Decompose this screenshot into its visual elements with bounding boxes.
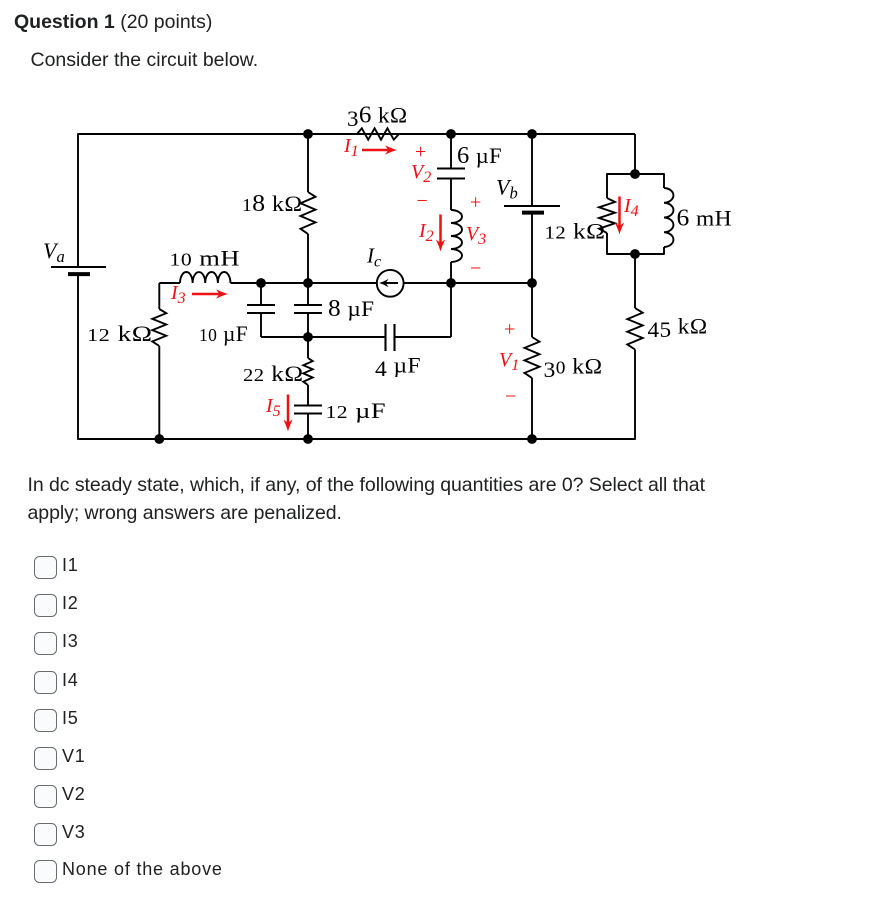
wire coil lower lead [450,262,452,283]
svg-text:I1: I1 [343,135,359,160]
resistor 12 kOhm left [152,309,166,346]
capacitor 12 uF [294,406,322,414]
source Vb [504,206,560,213]
label plus V3 [470,192,481,214]
wire top rail [78,133,635,135]
wire 12k-right upper lead [606,173,608,198]
wire lower rail left [261,336,386,338]
junction dots [154,129,639,444]
label V3 [466,223,486,248]
svg-text:12 kΩ: 12 kΩ [87,321,153,346]
svg-text:4 µF: 4 µF [375,353,421,382]
wire 6mH upper lead [663,173,665,188]
label 10 mH [170,246,241,271]
capacitor 10 uF [247,305,275,313]
wire 22k upper lead [307,337,309,358]
wire 8uF lower lead [307,313,309,337]
label plus V1 [504,319,515,341]
svg-text:I4: I4 [623,195,639,220]
arrow I1 [362,145,397,154]
inductor V3 coil [451,210,462,262]
wire lower rail right [395,336,452,338]
label minus V2 [417,190,428,212]
svg-text:8 µF: 8 µF [328,296,375,322]
label 22 kOhm [243,361,304,386]
wire Vb upper lead [531,134,533,206]
svg-text:−: − [470,258,481,280]
label 30 kOhm [544,354,603,383]
capacitor 8 uF [294,305,322,313]
label V2 [411,161,431,186]
svg-text:Vb: Vb [496,175,518,203]
wire riser to node [450,283,452,337]
arrow I2 [436,215,445,252]
label 12 kOhm left [87,321,153,346]
svg-text:−: − [417,190,428,212]
label 36 kOhm [347,103,408,132]
wire Vb lower lead [531,213,533,283]
svg-text:6 µF: 6 µF [457,143,502,169]
svg-text:45 kΩ: 45 kΩ [648,314,708,343]
arrow I5 [283,395,292,432]
label 6 mH [677,206,733,232]
svg-text:10 µF: 10 µF [199,321,248,346]
svg-text:+: + [415,141,426,163]
label I3 [170,282,186,307]
svg-text:10 mH: 10 mH [170,246,241,271]
label 6 uF [457,143,502,169]
wire 12k-right lower lead [606,233,608,255]
svg-text:36 kΩ: 36 kΩ [347,103,408,132]
svg-text:12 µF: 12 µF [326,398,387,423]
label minus V3 [470,258,481,280]
wire 18k lower lead [307,234,309,283]
resistor 18 kOhm [301,192,316,234]
inductor 10 mH [180,272,230,283]
wire 30k upper lead [531,283,533,337]
wire left rail lower [77,274,79,439]
wire 12uF lower lead [307,414,309,440]
wire parallel top rail [607,173,664,175]
resistor 12 kOhm right [599,198,615,233]
wire middle rail [231,282,533,284]
label 12 kOhm right [545,219,606,244]
arrow I4 [615,197,624,235]
resistor 45 kOhm [627,308,642,350]
svg-text:I2: I2 [418,220,434,245]
svg-text:I5: I5 [265,395,281,420]
svg-text:12 kΩ: 12 kΩ [545,219,606,244]
label 8 uF [328,296,375,322]
wire 8uF upper lead [307,283,309,305]
arrow I3 [192,289,228,298]
svg-text:Va: Va [43,238,65,266]
capacitor 4 uF [386,324,395,351]
resistor 30 kOhm [525,337,540,378]
svg-text:V3: V3 [466,223,486,248]
wire 10uF lower lead [260,313,262,337]
label 12 uF [326,398,387,423]
wire 45k lower lead [634,350,636,440]
label Vb [496,175,518,203]
label minus V1 [505,386,516,408]
inductor 6 mH [664,188,673,247]
wire combo to 45k [634,254,636,308]
label 18 kOhm [242,191,303,217]
wire 10mH left lead [159,282,180,284]
wire left rail upper [77,133,79,267]
wire 10uF upper lead [260,283,262,305]
label Ic [366,244,381,271]
label 4 uF [375,353,421,382]
wire parallel bottom rail [607,253,664,255]
resistor 36 kOhm [357,128,399,139]
wire 18k upper lead [307,134,309,192]
source Va [51,267,106,274]
label I2 [418,220,434,245]
svg-text:+: + [504,319,515,341]
svg-text:18 kΩ: 18 kΩ [242,191,303,217]
label I5 [265,395,281,420]
label 10 uF [199,321,248,346]
label 45 kOhm [648,314,708,343]
wire 12k-left lower lead [158,346,160,439]
wire 6uF-coil link [450,179,452,211]
svg-text:V2: V2 [411,161,431,186]
wire 12k-left upper lead [158,283,160,309]
label V1 [499,349,519,374]
wire 22k-12uF link [307,385,309,406]
wire 30k lower lead [531,378,533,439]
svg-text:Ic: Ic [366,244,381,271]
wire 6mH lower lead [663,247,665,255]
label I4 [623,195,639,220]
label Va [43,238,65,266]
wire bottom rail [77,438,636,440]
svg-text:30 kΩ: 30 kΩ [544,354,603,383]
svg-text:22 kΩ: 22 kΩ [243,361,304,386]
wire 6uF upper lead [450,134,452,169]
svg-text:6 mH: 6 mH [677,206,733,232]
svg-text:I3: I3 [170,282,186,307]
svg-text:V1: V1 [499,349,519,374]
resistor 22 kOhm [303,358,312,385]
svg-text:+: + [470,192,481,214]
wire right rail upper [634,134,636,174]
label plus V2 [415,141,426,163]
source Ic [377,270,404,297]
capacitor 6 uF [437,169,465,179]
label I1 [343,135,359,160]
svg-text:−: − [505,386,516,408]
